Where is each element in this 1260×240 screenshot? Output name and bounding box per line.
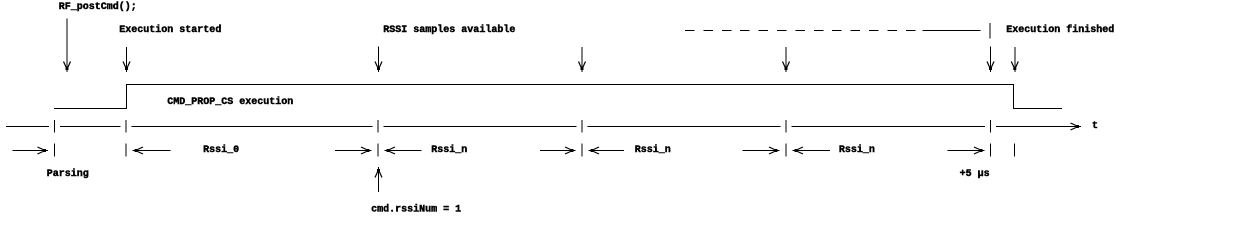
svg-text:Rssi_n: Rssi_n (431, 144, 467, 156)
svg-text:+5 µs: +5 µs (960, 169, 990, 180)
time axis arrow to t (996, 123, 1081, 130)
svg-text:Parsing: Parsing (47, 168, 89, 180)
time axis segment 5 (588, 126, 781, 128)
down arrow RSSI sample 3 (783, 47, 790, 72)
Rssi_0 left arrow (133, 147, 171, 154)
axis tick t2 (377, 120, 379, 133)
interval tick a2 (377, 144, 379, 157)
axis tick t1 (125, 120, 127, 133)
svg-text:cmd.rssiNum = 1: cmd.rssiNum = 1 (371, 204, 461, 216)
interval tick a3 (581, 144, 583, 157)
svg-text:Rssi_n: Rssi_n (839, 144, 875, 156)
Rssi_n 2 right arrow (743, 147, 780, 154)
Rssi_n 1 right arrow (540, 147, 576, 154)
dashed line to execution finished (685, 23, 990, 39)
Rssi_n 3 left arrow (793, 147, 830, 154)
time axis segment 4 (384, 126, 577, 128)
Rssi_n 2 left arrow (589, 147, 625, 154)
down arrow execution finished (1011, 47, 1018, 72)
axis tick t4 (785, 120, 787, 133)
interval tick a0 (54, 144, 56, 157)
axis tick t3 (581, 120, 583, 133)
waveform CMD_PROP_CS execution pulse (54, 85, 1062, 109)
svg-text:RSSI samples available: RSSI samples available (383, 24, 515, 36)
interval tick a6 (1013, 144, 1015, 157)
interval tick a1 (125, 144, 127, 157)
svg-text:CMD_PROP_CS execution: CMD_PROP_CS execution (167, 96, 293, 108)
up arrow cmd.rssiNum (375, 167, 382, 192)
down arrow RSSI sample 1 (375, 47, 382, 73)
svg-text:Execution finished: Execution finished (1006, 24, 1114, 36)
axis tick t0 (54, 120, 56, 133)
down arrow RSSI sample 2 (579, 47, 586, 72)
svg-text:RF_postCmd();: RF_postCmd(); (59, 1, 137, 13)
time axis segment 6 (792, 126, 986, 128)
down arrow last RSSI sample (987, 47, 994, 72)
svg-text:Rssi_n: Rssi_n (635, 144, 671, 156)
Rssi_n 3 right arrow (948, 147, 985, 154)
down arrow RF_postCmd (64, 19, 71, 73)
down arrow execution started (123, 47, 130, 72)
time axis segment 2 (60, 126, 121, 128)
interval tick a4 (785, 144, 787, 157)
svg-text:t: t (1092, 121, 1098, 132)
Rssi_n 1 left arrow (385, 147, 422, 154)
svg-text:Rssi_0: Rssi_0 (203, 144, 239, 156)
Rssi_0 right arrow (335, 147, 371, 154)
time axis segment 1 (6, 126, 49, 128)
interval tick a5 (990, 144, 992, 157)
time axis segment 3 (132, 126, 373, 128)
svg-text:Execution started: Execution started (119, 24, 221, 36)
axis tick t5 (990, 120, 992, 133)
parsing interval right arrow (12, 147, 48, 154)
